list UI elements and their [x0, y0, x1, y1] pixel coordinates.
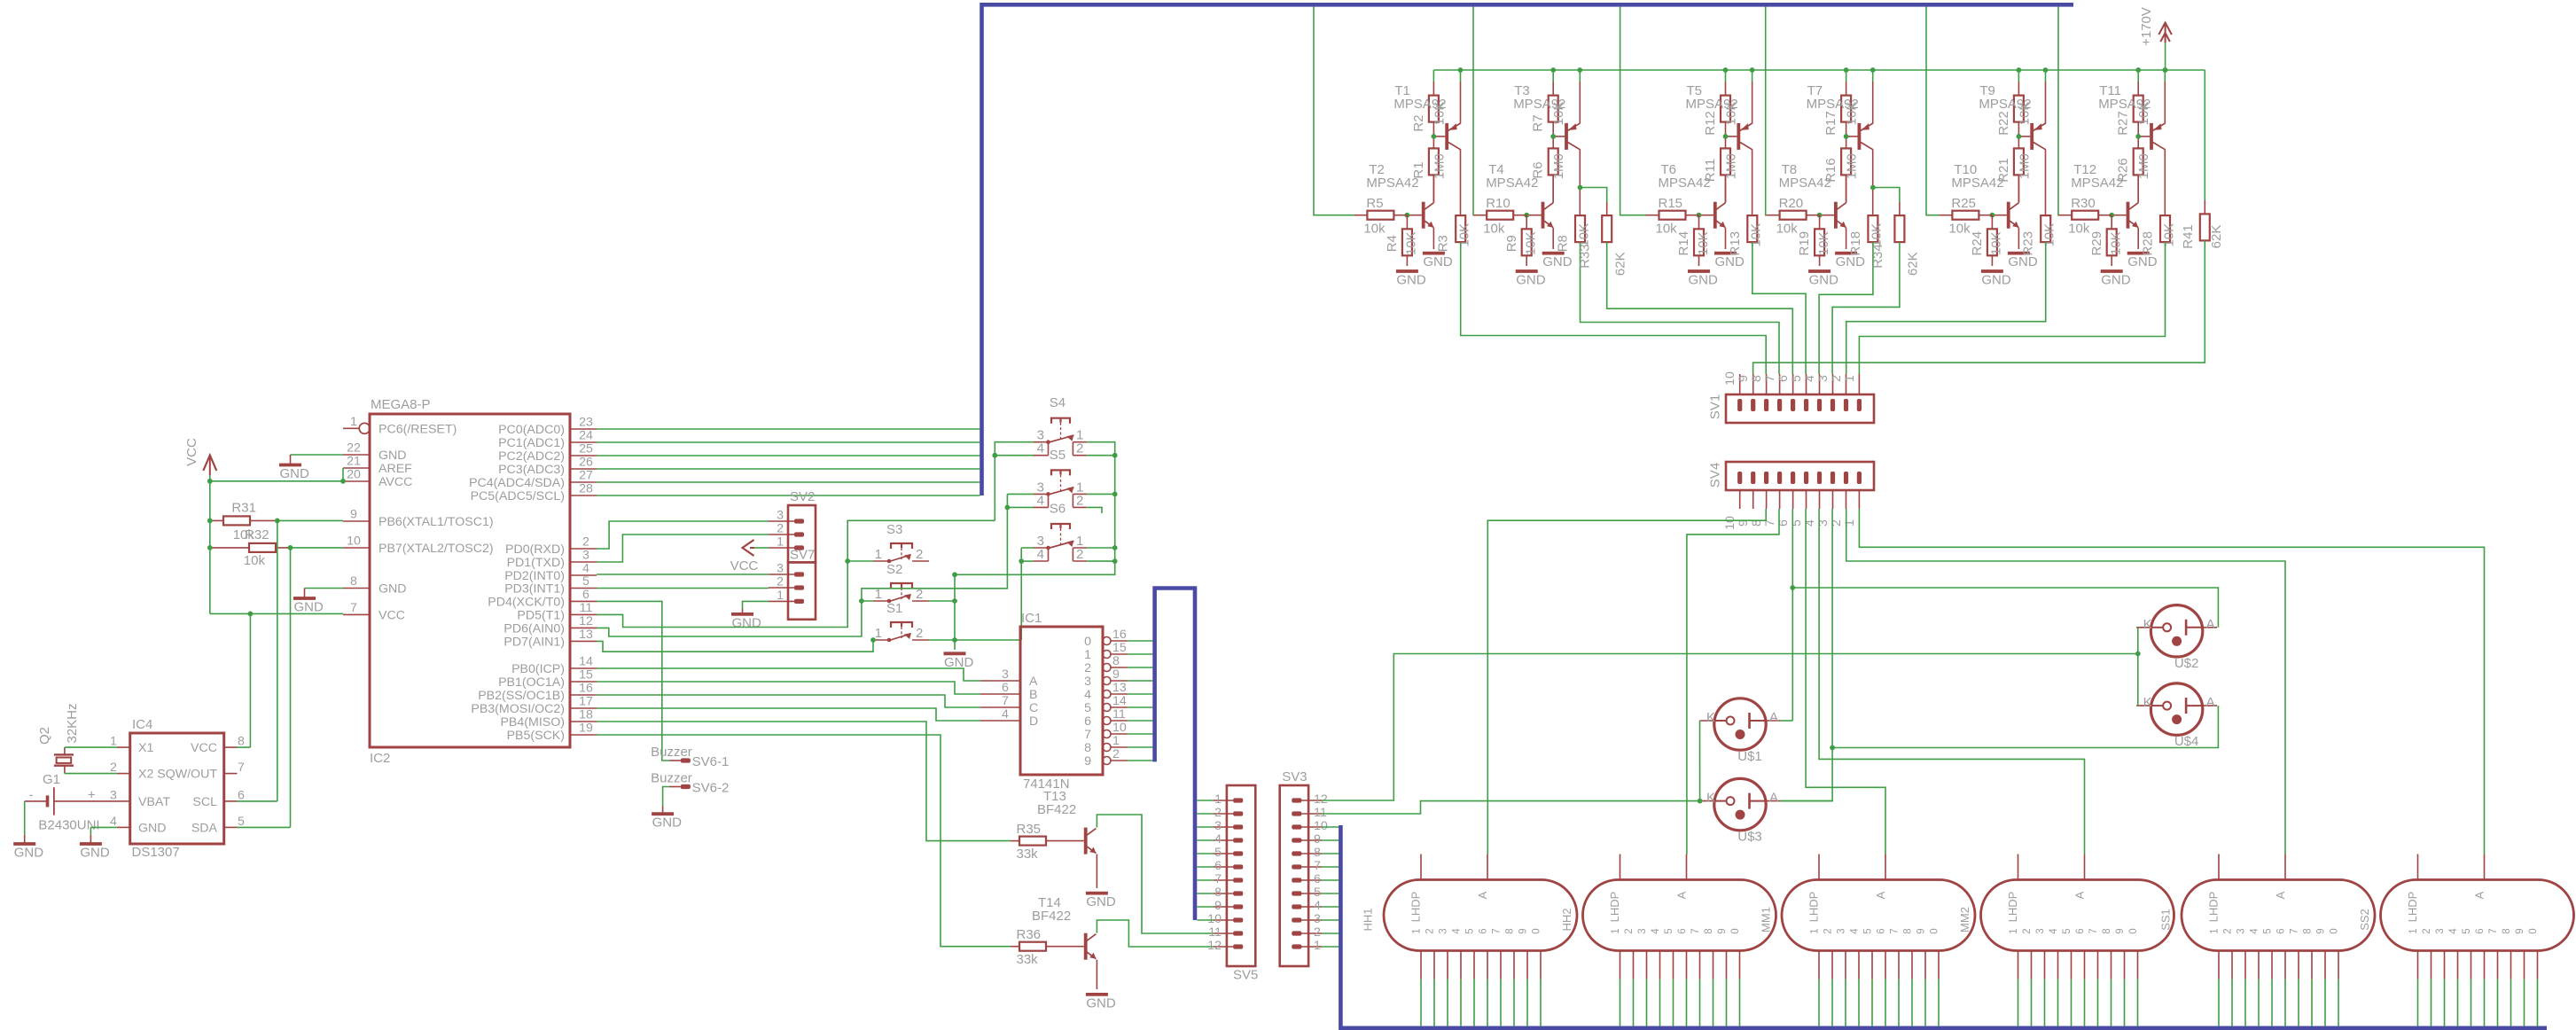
svg-text:AVCC: AVCC — [379, 475, 412, 489]
junction VCC-AVCC — [207, 479, 346, 484]
wire SV3.12 to lamp cathodes U$2 U$4 — [1322, 654, 2138, 801]
svg-text:9: 9 — [1084, 754, 1091, 769]
svg-text:A: A — [1769, 791, 1778, 806]
svg-text:8: 8 — [1084, 741, 1091, 755]
transistor T4 MPSA42 — [1486, 162, 1553, 229]
svg-text:VCC: VCC — [184, 438, 199, 466]
svg-text:9: 9 — [1737, 375, 1751, 382]
junction base T8 — [1817, 213, 1823, 218]
svg-text:IC1: IC1 — [1021, 611, 1042, 626]
connector SV1 — [1708, 371, 1875, 423]
svg-text:16: 16 — [579, 682, 593, 696]
ground GND at battery — [13, 801, 43, 861]
wire R34 to SV1.3 — [1832, 242, 1900, 374]
wire T8 collector to R16 — [1846, 175, 1847, 202]
svg-text:SV4: SV4 — [1708, 463, 1723, 488]
junction S5.4 — [1005, 505, 1011, 511]
svg-text:GND: GND — [294, 600, 324, 615]
neon lamp U$2 — [2136, 605, 2217, 671]
svg-text:9: 9 — [2316, 928, 2327, 933]
svg-text:0: 0 — [2128, 928, 2139, 933]
wire PB3 to IC1.D — [597, 708, 980, 721]
svg-text:1: 1 — [875, 626, 882, 641]
svg-text:1: 1 — [1843, 375, 1857, 382]
svg-text:PD0(RXD): PD0(RXD) — [505, 542, 565, 557]
resistor R8 10K — [1556, 215, 1592, 252]
ground GND under T4 — [1542, 228, 1573, 269]
junction base T5 — [1723, 134, 1729, 139]
svg-text:A: A — [1029, 675, 1038, 689]
svg-text:-: - — [29, 788, 34, 803]
svg-text:SV6-2: SV6-2 — [692, 781, 730, 796]
wire SV3.11 to lamp cathodes U$1 U$3 — [1322, 801, 1700, 814]
wire S4 feed — [995, 442, 1034, 521]
svg-text:4: 4 — [1037, 493, 1044, 508]
resistor R1 1M0 — [1411, 148, 1448, 202]
wire R8 output to SV1 — [1581, 242, 1780, 374]
svg-text:12: 12 — [1314, 792, 1328, 807]
svg-text:8: 8 — [2303, 928, 2314, 933]
wire R32 to PB7 — [291, 547, 344, 549]
ground GND under T2 — [1423, 228, 1453, 269]
junction SV4.3 lamp anodes — [1830, 745, 1835, 751]
resistor R24 10K — [1970, 215, 2004, 266]
svg-text:10: 10 — [1723, 516, 1737, 530]
svg-text:R34: R34 — [1870, 244, 1885, 269]
svg-text:PB2(SS/OC1B): PB2(SS/OC1B) — [478, 689, 565, 703]
wire PB2 to IC1.C — [597, 695, 980, 707]
svg-text:5: 5 — [1790, 519, 1804, 527]
wire R3 output to SV1 — [1461, 242, 1767, 374]
pin SV6-1 Buzzer — [651, 745, 729, 769]
svg-text:16: 16 — [1112, 628, 1127, 642]
svg-text:9: 9 — [1717, 928, 1728, 933]
wire SV4.8 to HH1 anode — [1487, 509, 1766, 854]
svg-text:LHDP: LHDP — [2406, 892, 2419, 923]
svg-text:4: 4 — [1452, 928, 1463, 934]
wire S6 feed chain to S1 — [1021, 548, 1034, 640]
svg-text:2: 2 — [1076, 441, 1083, 456]
connector SV3 — [1280, 769, 1328, 966]
svg-text:13: 13 — [1112, 681, 1127, 695]
wire T5 collector to R13 — [1752, 149, 1753, 215]
svg-text:10K: 10K — [2109, 231, 2124, 255]
svg-text:22: 22 — [347, 441, 361, 456]
svg-text:3: 3 — [1816, 375, 1831, 382]
svg-text:S2: S2 — [886, 562, 902, 577]
svg-text:2: 2 — [1624, 928, 1635, 933]
svg-text:SQW/OUT: SQW/OUT — [157, 768, 217, 782]
wire feed from bus to R30 — [2057, 7, 2059, 215]
svg-text:15: 15 — [579, 668, 593, 683]
svg-text:4: 4 — [2250, 928, 2260, 934]
svg-text:6: 6 — [582, 588, 589, 602]
svg-text:R13: R13 — [1728, 231, 1743, 256]
svg-text:2: 2 — [110, 761, 117, 775]
resistor R21 1M0 — [1996, 148, 2033, 202]
svg-text:1: 1 — [1843, 519, 1857, 527]
resistor R13 10K — [1728, 215, 1764, 255]
transistor T7 MPSA92 — [1807, 83, 1873, 150]
wire T7 emitter to rail — [1872, 70, 1874, 124]
svg-text:GND: GND — [1715, 254, 1745, 269]
svg-text:6: 6 — [2075, 928, 2086, 933]
svg-text:27: 27 — [579, 469, 593, 483]
svg-text:4: 4 — [1037, 441, 1044, 456]
svg-text:25: 25 — [579, 442, 593, 456]
svg-text:0: 0 — [2528, 928, 2539, 933]
svg-text:1: 1 — [2408, 928, 2419, 933]
svg-text:K: K — [1706, 791, 1715, 806]
svg-text:PB7(XTAL2/TOSC2): PB7(XTAL2/TOSC2) — [379, 542, 494, 556]
junction rail T11 emitter — [2162, 67, 2167, 73]
svg-text:20: 20 — [347, 468, 361, 482]
svg-text:R22: R22 — [1996, 111, 2011, 136]
svg-text:GND: GND — [1086, 995, 1116, 1010]
svg-text:6: 6 — [1084, 714, 1091, 729]
junction SV4.6 lamp anodes — [1790, 585, 1795, 590]
svg-text:PC1(ADC1): PC1(ADC1) — [498, 436, 565, 450]
svg-text:R31: R31 — [231, 501, 256, 516]
svg-text:2: 2 — [582, 535, 589, 550]
svg-text:3: 3 — [1637, 928, 1648, 933]
svg-text:1: 1 — [2210, 928, 2221, 933]
wire T4 collector to R6 — [1552, 175, 1554, 202]
ground GND at SV7.1 — [731, 601, 769, 630]
svg-text:A: A — [2274, 891, 2287, 899]
svg-text:GND: GND — [138, 821, 167, 835]
svg-text:MPSA92: MPSA92 — [1686, 97, 1738, 112]
svg-text:MM1: MM1 — [1759, 907, 1772, 932]
svg-text:7: 7 — [238, 761, 245, 775]
svg-text:24: 24 — [579, 429, 593, 443]
junction S6.4 — [1019, 558, 1024, 564]
junction lamp cathodes U$1 U$3 — [1698, 799, 1703, 804]
svg-text:MPSA92: MPSA92 — [1979, 97, 2031, 112]
svg-text:R4: R4 — [1385, 235, 1400, 252]
svg-text:MM2: MM2 — [1958, 907, 1971, 932]
svg-text:9: 9 — [1112, 667, 1120, 682]
svg-text:R29: R29 — [2089, 231, 2104, 256]
svg-text:3: 3 — [777, 562, 784, 576]
switch S3 — [873, 522, 929, 563]
svg-text:10k: 10k — [1776, 222, 1799, 237]
svg-text:AREF: AREF — [379, 462, 412, 476]
svg-text:GND: GND — [1836, 254, 1866, 269]
svg-text:PC0(ADC0): PC0(ADC0) — [498, 423, 565, 437]
svg-text:GND: GND — [732, 615, 762, 630]
wire Q2 to X1 X2 — [65, 747, 117, 774]
wire T11 collector to R28 — [2164, 149, 2166, 215]
svg-text:1: 1 — [1810, 928, 1821, 933]
wire HH1 cathode pins to bus — [1421, 951, 1541, 1026]
svg-text:R15: R15 — [1659, 196, 1683, 211]
svg-text:14: 14 — [1112, 694, 1127, 708]
wire SV4.1 to SS2 anode — [1859, 509, 2484, 854]
svg-text:GND: GND — [1423, 254, 1453, 269]
svg-text:6: 6 — [238, 788, 245, 802]
wire SV3.10 to bus — [1322, 826, 1339, 828]
svg-text:R8: R8 — [1556, 235, 1571, 252]
svg-text:PD7(AIN1): PD7(AIN1) — [503, 635, 565, 649]
svg-text:1: 1 — [1314, 939, 1321, 953]
svg-text:6: 6 — [1479, 928, 1489, 933]
svg-text:5: 5 — [1790, 375, 1804, 382]
svg-text:U$1: U$1 — [1737, 749, 1762, 764]
svg-text:9: 9 — [1314, 832, 1321, 847]
svg-text:2: 2 — [916, 547, 923, 562]
svg-text:PD4(XCK/T0): PD4(XCK/T0) — [488, 595, 565, 609]
svg-text:0: 0 — [1930, 928, 1940, 933]
resistor R4 10K — [1385, 215, 1419, 266]
svg-text:1: 1 — [777, 589, 784, 603]
svg-text:10: 10 — [1112, 721, 1127, 735]
svg-text:PD1(TXD): PD1(TXD) — [507, 556, 565, 570]
svg-text:R17: R17 — [1823, 111, 1838, 136]
wire PD2 to SV7.3 — [597, 574, 769, 575]
junction rail T5 emitter — [1750, 67, 1755, 73]
wire feed from bus to R25 — [1926, 7, 1939, 215]
svg-text:8: 8 — [1112, 654, 1120, 668]
svg-text:R33: R33 — [1578, 244, 1593, 269]
resistor R11 1M0 — [1703, 148, 1739, 202]
wire feed from bus to R20 — [1765, 7, 1768, 215]
svg-text:A: A — [2206, 695, 2215, 710]
svg-text:GND: GND — [1516, 273, 1546, 288]
svg-text:R9: R9 — [1504, 235, 1519, 252]
ground GND at SV6-2 — [652, 787, 682, 831]
svg-text:K: K — [2143, 695, 2152, 710]
svg-text:6: 6 — [1314, 872, 1321, 886]
ground GND under R4 — [1396, 271, 1426, 288]
wire SCL PB6 to IC4 — [238, 520, 277, 801]
pin SV6-2 Buzzer — [651, 771, 729, 796]
svg-text:10: 10 — [1207, 912, 1222, 926]
svg-text:LHDP: LHDP — [1409, 892, 1423, 923]
svg-text:7: 7 — [1084, 728, 1091, 742]
wire SV4.5 to MM1 anode — [1806, 509, 1885, 854]
svg-text:62K: 62K — [2209, 225, 2224, 249]
svg-text:11: 11 — [1112, 707, 1126, 722]
svg-text:7: 7 — [1492, 928, 1503, 933]
wire U$3 anode — [1781, 800, 1833, 802]
svg-text:0: 0 — [1084, 635, 1091, 649]
svg-text:LHDP: LHDP — [2207, 892, 2221, 923]
svg-text:A: A — [1874, 891, 1887, 899]
svg-text:BF422: BF422 — [1032, 909, 1071, 924]
svg-text:10K: 10K — [1749, 223, 1764, 247]
transistor T14 BF422 — [1032, 895, 1096, 960]
svg-text:B: B — [1029, 688, 1037, 702]
svg-text:SV3: SV3 — [1282, 769, 1307, 784]
svg-text:X1: X1 — [138, 741, 153, 755]
switch S1 — [873, 601, 929, 642]
svg-text:5: 5 — [1465, 928, 1476, 933]
resistor R9 10K — [1504, 215, 1539, 266]
transistor T8 MPSA42 — [1779, 162, 1846, 229]
svg-text:11: 11 — [1208, 925, 1222, 940]
wire S5.4 stub link — [1007, 506, 1034, 508]
bus SV3 to nixie cathodes — [1340, 825, 2547, 1028]
junction base T11 — [2135, 134, 2141, 139]
nixie tube SS2 — [2358, 854, 2574, 951]
svg-text:GND: GND — [1086, 894, 1116, 909]
svg-text:VCC: VCC — [730, 558, 759, 574]
svg-text:32KHz: 32KHz — [65, 703, 80, 743]
svg-text:10K: 10K — [1816, 231, 1831, 255]
svg-text:MEGA8-P: MEGA8-P — [371, 397, 431, 412]
svg-text:A: A — [1476, 891, 1489, 899]
svg-text:GND: GND — [280, 466, 310, 481]
svg-text:R18: R18 — [1848, 231, 1863, 256]
svg-text:5: 5 — [2062, 928, 2073, 933]
svg-text:6: 6 — [1214, 859, 1222, 873]
wire HH2 cathode pins to bus — [1620, 951, 1740, 1026]
junction base T2 — [1405, 213, 1410, 218]
svg-text:10K: 10K — [1576, 223, 1591, 247]
junction base T12 — [2109, 213, 2114, 218]
IC IC4 DS1307 — [110, 717, 245, 860]
svg-text:1: 1 — [1214, 792, 1222, 807]
wire R41 to SV1.9 — [1753, 240, 2205, 374]
junction lamp cathodes U$2 U$4 — [2135, 652, 2141, 657]
svg-text:PC3(ADC3): PC3(ADC3) — [498, 463, 565, 477]
resistor R23 10K — [2021, 215, 2057, 255]
svg-text:4: 4 — [1037, 547, 1044, 562]
svg-text:R2: R2 — [1411, 114, 1426, 131]
svg-text:S1: S1 — [886, 601, 902, 616]
resistor R7 10K — [1531, 70, 1567, 148]
svg-text:18: 18 — [579, 708, 593, 722]
svg-text:D: D — [1029, 714, 1038, 729]
wire feed from bus to R10 — [1472, 7, 1474, 215]
svg-text:1: 1 — [350, 415, 357, 429]
wire T10 collector to R21 — [2018, 175, 2019, 202]
svg-text:R3: R3 — [1436, 235, 1451, 252]
svg-text:2: 2 — [1076, 493, 1083, 508]
svg-text:PC4(ADC4/SDA): PC4(ADC4/SDA) — [469, 476, 565, 490]
wire U$1 anode — [1781, 720, 1793, 722]
svg-text:8: 8 — [1903, 928, 1914, 933]
resistor R16 1M0 — [1823, 148, 1860, 202]
resistor R5 10k — [1354, 196, 1407, 237]
wire T7 collector to R18 — [1872, 149, 1874, 215]
svg-text:28: 28 — [579, 482, 593, 496]
svg-text:5: 5 — [2263, 928, 2274, 933]
svg-text:PB6(XTAL1/TOSC1): PB6(XTAL1/TOSC1) — [379, 515, 494, 529]
svg-text:10: 10 — [1723, 371, 1737, 386]
svg-text:GND: GND — [80, 846, 110, 861]
ground GND under T12 — [2127, 228, 2158, 269]
svg-text:R25: R25 — [1951, 196, 1976, 211]
svg-text:U$2: U$2 — [2174, 656, 2199, 671]
svg-text:4: 4 — [1850, 928, 1861, 934]
svg-text:7: 7 — [350, 601, 357, 615]
svg-text:3: 3 — [1837, 928, 1847, 933]
transistor T2 MPSA42 — [1366, 162, 1433, 229]
wire T1 collector to R3 — [1460, 149, 1462, 215]
junction S2.1 — [859, 598, 864, 604]
svg-text:8: 8 — [238, 735, 245, 749]
junction S2.2 S1.2 — [952, 598, 957, 643]
transistor T11 MPSA92 — [2098, 83, 2165, 150]
resistor R31 10k — [210, 501, 277, 542]
svg-text:3: 3 — [2035, 928, 2046, 933]
svg-text:1: 1 — [1084, 648, 1091, 662]
svg-text:10K: 10K — [2161, 223, 2176, 247]
svg-text:PD5(T1): PD5(T1) — [517, 608, 565, 622]
junction S4-S6 common — [1112, 453, 1118, 564]
svg-text:Buzzer: Buzzer — [651, 745, 692, 760]
wire T5 emitter to rail — [1752, 70, 1753, 124]
svg-text:7: 7 — [1214, 872, 1222, 886]
svg-text:10K: 10K — [1457, 223, 1472, 247]
svg-text:GND: GND — [1542, 254, 1573, 269]
svg-text:MPSA42: MPSA42 — [1659, 176, 1711, 191]
transistor T5 MPSA92 — [1686, 83, 1752, 150]
svg-text:R20: R20 — [1779, 196, 1804, 211]
svg-text:5: 5 — [2462, 928, 2472, 933]
svg-text:Buzzer: Buzzer — [651, 771, 692, 786]
svg-text:MPSA42: MPSA42 — [1951, 176, 2003, 191]
wire PD7 to S1 — [597, 640, 873, 652]
svg-text:3: 3 — [1314, 912, 1321, 926]
junction rail T3 emitter — [1577, 67, 1582, 73]
svg-text:9: 9 — [350, 508, 357, 522]
wire PB5 to R36 — [597, 735, 1011, 947]
svg-text:VBAT: VBAT — [138, 795, 170, 809]
wire feed from bus to R5 — [1314, 7, 1354, 215]
svg-text:PB0(ICP): PB0(ICP) — [511, 662, 565, 676]
svg-text:2: 2 — [2422, 928, 2432, 933]
svg-text:GND: GND — [2008, 254, 2038, 269]
svg-text:17: 17 — [579, 695, 593, 709]
svg-text:R24: R24 — [1970, 231, 1985, 256]
ground GND under R24 — [1981, 271, 2011, 288]
wire S4-S6 right common to GND — [955, 442, 1115, 650]
transistor T9 MPSA92 — [1979, 83, 2045, 150]
svg-text:6: 6 — [2276, 928, 2287, 933]
svg-text:A: A — [2206, 617, 2215, 632]
transistor T6 MPSA42 — [1659, 162, 1726, 229]
svg-text:PB5(SCK): PB5(SCK) — [507, 729, 565, 743]
svg-text:G1: G1 — [43, 772, 60, 787]
wire R33 to SV1.6 — [1607, 242, 1793, 374]
resistor R3 10K — [1436, 215, 1472, 252]
svg-text:0: 0 — [2330, 928, 2340, 933]
junction rail R22 — [2017, 67, 2022, 73]
svg-text:DS1307: DS1307 — [132, 845, 180, 860]
junction rail T1 emitter — [1458, 67, 1464, 73]
IC IC2 MEGA8-P — [343, 397, 597, 766]
resistor R18 10K — [1848, 215, 1885, 255]
svg-text:VCC: VCC — [379, 608, 405, 622]
wire feed from bus to R15 — [1620, 7, 1646, 215]
svg-text:10k: 10k — [1656, 222, 1678, 237]
svg-text:4: 4 — [1084, 688, 1091, 702]
power +170V arrow — [2139, 7, 2172, 70]
svg-text:10: 10 — [347, 535, 361, 549]
junction R32 — [207, 545, 293, 550]
svg-text:3: 3 — [2236, 928, 2247, 933]
svg-text:Q2: Q2 — [37, 727, 52, 745]
svg-text:K: K — [1706, 710, 1715, 725]
connector SV7 — [769, 548, 816, 620]
svg-text:62K: 62K — [1612, 252, 1628, 276]
svg-text:SV2: SV2 — [790, 489, 815, 504]
svg-text:GND: GND — [379, 582, 407, 597]
svg-text:R27: R27 — [2116, 111, 2131, 136]
